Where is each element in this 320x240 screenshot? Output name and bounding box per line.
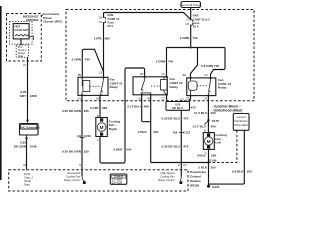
wire label 3 WHT 504 bbox=[113, 148, 132, 152]
wire label 2 ORN 740 mid bbox=[156, 59, 174, 63]
svg-text:Hot at All Times: Hot at All Times bbox=[181, 3, 200, 7]
svg-text:Left: Left bbox=[215, 141, 221, 145]
svg-text:D1: D1 bbox=[78, 96, 82, 100]
svg-text:C8: C8 bbox=[99, 16, 103, 20]
svg-text:0.35 DK BLU: 0.35 DK BLU bbox=[161, 117, 180, 121]
relay3 actuation dashed bbox=[197, 85, 207, 87]
svg-text:COOLANT: COOLANT bbox=[15, 28, 29, 32]
wire label 3 LT BLU 409 bbox=[127, 105, 149, 109]
svg-text:0.8 BLK: 0.8 BLK bbox=[232, 169, 244, 173]
svg-text:2 PPL: 2 PPL bbox=[94, 37, 103, 41]
junction block underhood dashed box bbox=[66, 10, 254, 101]
svg-text:A: A bbox=[97, 138, 99, 142]
svg-text:409: 409 bbox=[210, 124, 215, 128]
A/C schematics reference box bbox=[20, 124, 41, 136]
svg-text:C2: C2 bbox=[204, 73, 208, 77]
svg-text:430: 430 bbox=[210, 111, 215, 115]
relay1 coil wire to PCM low speed bbox=[81, 95, 83, 169]
orn distribution bus bbox=[166, 47, 225, 49]
svg-text:C6: C6 bbox=[99, 20, 103, 24]
wire label 3 LT BLU 430 bbox=[194, 111, 216, 115]
svg-text:Relay Control: Relay Control bbox=[158, 178, 175, 182]
relay3 switch bbox=[208, 77, 212, 96]
svg-text:Class 2: Class 2 bbox=[24, 176, 33, 180]
junction block label bbox=[214, 105, 243, 113]
svg-text:A9: A9 bbox=[23, 163, 27, 167]
svg-text:Cooling Fan: Cooling Fan bbox=[66, 175, 81, 179]
wire label 0.35 DK GRN 1049 bbox=[14, 141, 37, 149]
svg-text:3 GRY: 3 GRY bbox=[90, 106, 100, 110]
svg-text:F5: F5 bbox=[147, 96, 151, 100]
cooling fan right motor bbox=[96, 118, 121, 137]
svg-text:473: 473 bbox=[183, 117, 188, 121]
svg-text:Right: Right bbox=[109, 127, 117, 131]
svg-text:S148: S148 bbox=[209, 158, 217, 162]
svg-text:G101: G101 bbox=[212, 185, 220, 189]
svg-text:30 A: 30 A bbox=[193, 25, 199, 29]
wire label 2 ORN 740 top bbox=[180, 36, 198, 40]
svg-text:C1: C1 bbox=[186, 17, 190, 21]
svg-text:M: M bbox=[207, 139, 211, 144]
svg-text:3 WHT: 3 WHT bbox=[113, 148, 123, 152]
arrow into reference box bbox=[26, 120, 29, 124]
wire label 0.35 DK BLU 473 bbox=[161, 117, 188, 121]
svg-text:C1 = BLU: C1 = BLU bbox=[112, 180, 123, 182]
svg-text:Low Speed: Low Speed bbox=[67, 171, 81, 175]
instrument panel cluster dashed box bbox=[7, 14, 42, 62]
svg-text:3 BLK: 3 BLK bbox=[197, 153, 207, 157]
svg-text:740: 740 bbox=[168, 59, 173, 63]
wire label 2 ORN 740 left bbox=[72, 58, 91, 62]
svg-text:Underhood (Maxi): Underhood (Maxi) bbox=[214, 108, 243, 112]
fuse FAN CONT 1 25A bbox=[99, 13, 120, 78]
svg-text:C1: C1 bbox=[183, 163, 187, 167]
svg-text:C1: C1 bbox=[161, 72, 165, 76]
low speed cooling fan relay control pin bbox=[64, 170, 86, 184]
svg-text:D2: D2 bbox=[138, 96, 142, 100]
relay3 coil wire into splice box bbox=[189, 96, 191, 102]
svg-text:C6: C6 bbox=[99, 70, 103, 74]
svg-text:3 LT BLU: 3 LT BLU bbox=[194, 111, 208, 115]
page left border scan line bbox=[0, 6, 2, 180]
fan cont 2 relay box bbox=[133, 77, 183, 95]
svg-text:3 LT BLU: 3 LT BLU bbox=[127, 105, 141, 109]
svg-text:Schematics: Schematics bbox=[234, 123, 249, 127]
relay2 switch bbox=[141, 76, 152, 95]
wire label 2 BLK 250 bbox=[138, 130, 159, 134]
relay1 feed bridge bbox=[82, 49, 103, 77]
svg-text:B4: B4 bbox=[173, 131, 177, 135]
wire hot feed down bbox=[190, 8, 192, 21]
svg-text:Relay: Relay bbox=[110, 85, 119, 89]
svg-text:C210: C210 bbox=[84, 134, 92, 138]
relay2 ground wire bbox=[150, 95, 152, 163]
splice S175 bbox=[204, 119, 219, 125]
svg-text:Serial: Serial bbox=[24, 179, 31, 183]
svg-text:740: 740 bbox=[85, 58, 90, 62]
svg-text:1308: 1308 bbox=[30, 94, 37, 98]
relay3 coil bbox=[188, 77, 197, 96]
svg-text:Control: Control bbox=[190, 175, 201, 179]
svg-text:Relay: Relay bbox=[170, 85, 179, 89]
wire IPC pin A7 down bbox=[27, 57, 29, 120]
svg-text:680: 680 bbox=[105, 37, 110, 41]
svg-text:B3: B3 bbox=[140, 72, 144, 76]
inline connector B4 C112 bbox=[173, 131, 190, 135]
svg-text:409: 409 bbox=[144, 105, 149, 109]
PCM label bbox=[190, 170, 206, 188]
wire label 3 LT BLU 409 bbox=[193, 124, 216, 128]
svg-text:250: 250 bbox=[210, 166, 215, 170]
wire label 0.35 GRY 1308 bbox=[20, 90, 37, 98]
svg-text:Relay Control: Relay Control bbox=[64, 178, 81, 182]
hot at all times box bbox=[181, 2, 201, 8]
relay2 coil bbox=[161, 76, 168, 95]
splice box S116 bbox=[166, 98, 196, 111]
svg-text:0.35 DK GRN: 0.35 DK GRN bbox=[62, 150, 82, 154]
PCM class 2 serial data bbox=[24, 172, 33, 187]
svg-text:C112: C112 bbox=[183, 131, 191, 135]
fan cont 1 relay box bbox=[78, 77, 123, 95]
ground link to S148 bbox=[151, 162, 209, 164]
svg-text:2 ORN: 2 ORN bbox=[72, 58, 82, 62]
wire label 3 BLK 550 bbox=[197, 153, 217, 157]
inline connector A9 C210 bbox=[77, 134, 91, 138]
fuse FAN CONT 2and3 30A bbox=[185, 14, 210, 48]
relay1 switch bbox=[100, 77, 105, 96]
feed bus to fuse 1 bbox=[104, 13, 191, 20]
svg-text:0.8 ORN 740: 0.8 ORN 740 bbox=[201, 64, 219, 68]
svg-text:A7: A7 bbox=[23, 63, 27, 67]
svg-text:Ground: Ground bbox=[237, 115, 246, 119]
svg-text:250: 250 bbox=[153, 130, 158, 134]
svg-text:Distribution: Distribution bbox=[234, 119, 248, 123]
svg-text:(PCM): (PCM) bbox=[190, 184, 199, 188]
svg-text:2 ORN: 2 ORN bbox=[180, 36, 190, 40]
svg-text:335: 335 bbox=[84, 109, 89, 113]
svg-text:GRY: GRY bbox=[20, 94, 28, 98]
svg-text:PCM: PCM bbox=[24, 172, 31, 176]
svg-text:A2: A2 bbox=[204, 96, 208, 100]
svg-text:1049: 1049 bbox=[30, 144, 37, 148]
message center inner dashed box bbox=[10, 22, 33, 44]
relay2 actuation dashed bbox=[151, 85, 160, 87]
splice output wire to PCM high speed bbox=[180, 111, 182, 170]
svg-text:473: 473 bbox=[183, 145, 188, 149]
bus drop to fan relay 3 coil bbox=[191, 48, 198, 78]
svg-text:C3: C3 bbox=[161, 96, 165, 100]
cooling fan left motor bbox=[203, 133, 227, 150]
wire label 0.35 DK BLU 473 lower bbox=[161, 145, 188, 149]
ground G101 bbox=[207, 185, 220, 189]
svg-text:A9: A9 bbox=[77, 134, 81, 138]
svg-text:0.35 DK BLU: 0.35 DK BLU bbox=[161, 145, 180, 149]
svg-text:Cooling Fan: Cooling Fan bbox=[160, 175, 175, 179]
svg-text:Powertrain: Powertrain bbox=[190, 170, 206, 174]
svg-text:504: 504 bbox=[126, 148, 131, 152]
svg-text:2 BLK: 2 BLK bbox=[138, 130, 148, 134]
svg-text:C2 = CLR: C2 = CLR bbox=[112, 182, 123, 184]
hot coolant indicator box bbox=[13, 24, 29, 39]
svg-text:DK BLU: DK BLU bbox=[172, 106, 183, 110]
wire label 2 PPL 680 bbox=[94, 37, 110, 41]
svg-text:B5: B5 bbox=[78, 73, 82, 77]
svg-text:473: 473 bbox=[191, 106, 196, 110]
svg-text:M: M bbox=[100, 125, 104, 130]
ground distribution schematics box bbox=[233, 114, 249, 131]
svg-text:550: 550 bbox=[211, 153, 216, 157]
indicator output hook bbox=[29, 37, 33, 41]
IPC serial data mini dashed box bbox=[16, 45, 28, 58]
svg-text:High Speed: High Speed bbox=[160, 171, 175, 175]
svg-text:Module: Module bbox=[190, 179, 201, 183]
bus corner drop right bbox=[211, 48, 226, 78]
svg-text:150: 150 bbox=[246, 169, 251, 173]
IPC name label bbox=[41, 12, 62, 23]
svg-text:CONN ID: CONN ID bbox=[114, 177, 124, 179]
high speed cooling fan relay control pin bbox=[158, 170, 182, 184]
fan cont 3 relay box bbox=[187, 78, 232, 96]
relay2 coil wire into splice box bbox=[166, 95, 168, 102]
svg-text:Data: Data bbox=[24, 183, 30, 187]
wire label 3 GRY 682 bbox=[90, 106, 108, 110]
wire ref box to PCM bbox=[26, 135, 28, 170]
svg-text:A/C Schematics: A/C Schematics bbox=[21, 126, 41, 129]
pin 8 C1 bbox=[178, 163, 187, 167]
relay1 output wire to right fan bbox=[99, 95, 101, 117]
svg-text:B4: B4 bbox=[183, 73, 187, 77]
svg-text:Data: Data bbox=[18, 54, 24, 58]
splice S148 bbox=[207, 158, 216, 163]
left fan ground wire bbox=[208, 149, 210, 186]
svg-text:2 ORN: 2 ORN bbox=[156, 59, 166, 63]
svg-text:2 BLK: 2 BLK bbox=[198, 166, 208, 170]
wire label 0.35 DK GRN 335 lower bbox=[62, 150, 89, 154]
dashed branch wire to S148 bbox=[209, 130, 237, 162]
right fan return loop wire bbox=[100, 68, 145, 163]
svg-text:S175: S175 bbox=[212, 119, 220, 123]
wire label 2 BLK 250 right bbox=[198, 166, 216, 170]
svg-text:682: 682 bbox=[102, 106, 107, 110]
svg-text:C8: C8 bbox=[185, 22, 189, 26]
relay2 jumper pins D2 F5 bbox=[142, 95, 151, 122]
svg-text:25 A: 25 A bbox=[108, 24, 114, 28]
svg-text:740: 740 bbox=[192, 36, 197, 40]
svg-text:Relay: Relay bbox=[218, 86, 227, 90]
svg-text:335: 335 bbox=[84, 150, 89, 154]
wire label 0.35 DK GRN 335 bbox=[62, 109, 89, 113]
relay3 output wire to left fan bbox=[207, 96, 209, 133]
svg-text:0.35 DK GRN: 0.35 DK GRN bbox=[62, 109, 82, 113]
bus drop to fan relay 2 bbox=[166, 48, 168, 77]
svg-text:DK GRN: DK GRN bbox=[14, 144, 27, 148]
arrow into reference box bottom bbox=[25, 135, 28, 139]
ground wire 0.8 BLK 150 bbox=[209, 130, 245, 184]
PCM dashed box bbox=[9, 170, 188, 191]
svg-text:Cluster (IPC): Cluster (IPC) bbox=[43, 20, 62, 24]
wire lamp to ipc logic bbox=[20, 39, 22, 45]
svg-text:3 LT BLU: 3 LT BLU bbox=[193, 124, 207, 128]
relay1 actuation dashed bbox=[90, 85, 101, 87]
relay1 coil bbox=[81, 77, 90, 96]
connector id box bbox=[110, 174, 127, 184]
